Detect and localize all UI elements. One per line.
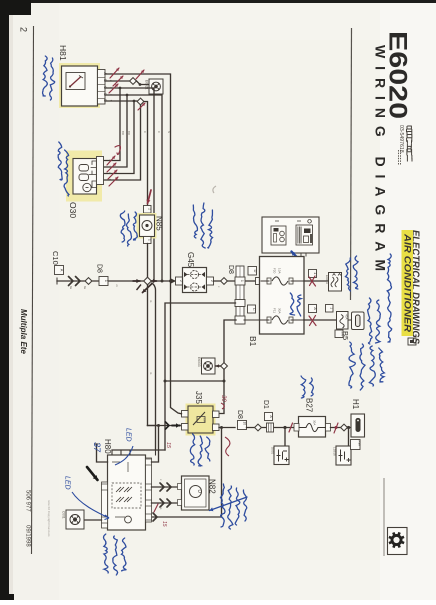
wire H81-C — [105, 88, 154, 281]
wire bus right of G45 — [214, 280, 257, 282]
rule under title — [351, 28, 352, 300]
short line right of gear box — [383, 478, 385, 556]
footer rule — [32, 26, 34, 554]
svg-text:F11: F11 — [273, 308, 277, 313]
H80 left pin strip — [102, 482, 108, 528]
svg-text:E6016: E6016 — [325, 275, 329, 284]
svg-text:15: 15 — [161, 521, 167, 527]
svg-text:G45: G45 — [186, 252, 195, 268]
svg-text:F20: F20 — [273, 268, 277, 274]
svg-text:LED: LED — [125, 428, 132, 442]
stubs to B1 — [301, 253, 306, 257]
svg-text:8a: 8a — [69, 286, 73, 290]
H81 pin strip — [98, 70, 106, 105]
blue ink: notes left of N85 — [120, 211, 125, 242]
junction to battery 1 — [283, 426, 286, 429]
svg-text:C: C — [143, 131, 147, 133]
svg-text:1: 1 — [330, 307, 334, 309]
svg-text:1: 1 — [240, 280, 244, 282]
blue ink: notes right of G45 — [193, 205, 197, 238]
wire branch to relay contact — [165, 380, 224, 382]
svg-text:A: A — [313, 307, 318, 310]
svg-text:30A: 30A — [203, 418, 207, 423]
fuse B5 40A — [337, 312, 349, 330]
svg-text:N82: N82 — [208, 479, 217, 494]
blue ink arrow to N82 — [210, 497, 248, 511]
hebrew company line 1 (drawn strokes) — [407, 126, 413, 162]
svg-text:RVA: RVA — [358, 441, 362, 447]
connector pin D label — [248, 267, 257, 276]
yellow highlight AIR CONDITIONER — [402, 230, 414, 336]
svg-text:D1: D1 — [262, 400, 269, 409]
svg-text:D8: D8 — [96, 264, 103, 273]
svg-text:Multipla Ete: Multipla Ete — [19, 309, 28, 354]
ground E6033 — [202, 358, 216, 374]
blue ink: note 30A near B1 — [290, 293, 295, 315]
gear icon box bottom-right — [388, 528, 408, 555]
connector chevrons on bus — [69, 277, 74, 286]
svg-text:O30: O30 — [68, 202, 78, 218]
H80 internals — [112, 483, 141, 508]
staircase wires into O30 — [104, 88, 121, 161]
svg-text:A: A — [60, 269, 65, 272]
component O30 highlight — [66, 151, 102, 202]
svg-text:L1B18: L1B18 — [333, 447, 337, 456]
scan edge: top-left corner block — [0, 0, 31, 15]
red tick on bus — [289, 423, 293, 432]
tiny top marks — [275, 220, 311, 224]
wires feeding H80 from verticals — [112, 449, 165, 451]
wire B1 row2 to B5 — [304, 319, 337, 321]
wire B1 row1 to E6016 — [304, 280, 329, 282]
red dot mark — [335, 426, 338, 429]
red cross mark row2 — [309, 316, 316, 326]
J35 pins — [182, 411, 189, 418]
hand-drawn black arrow — [87, 467, 98, 480]
svg-text:D001: D001 — [271, 447, 275, 455]
connector D8 band — [236, 266, 244, 324]
svg-text:H80: H80 — [103, 439, 112, 454]
wire B27 to H1 — [331, 427, 352, 429]
svg-text:N85: N85 — [155, 216, 164, 231]
svg-text:C001: C001 — [62, 511, 66, 519]
scan edge: top black line — [0, 0, 436, 3]
svg-text:J35: J35 — [194, 391, 203, 404]
red ink 9 squiggle — [115, 146, 120, 155]
red arrows at O30 pins — [107, 156, 115, 165]
ground E6021 — [149, 79, 163, 94]
component N85 highlight — [137, 213, 157, 239]
N85 pin bottom — [144, 237, 152, 244]
svg-text:2: 2 — [147, 208, 151, 210]
O30 pin strip — [97, 157, 104, 185]
wire lower bus — [247, 427, 295, 429]
svg-text:30A: 30A — [313, 420, 317, 425]
red ink arrows near H81 — [110, 68, 119, 78]
B1 fuse row 2 — [244, 319, 304, 321]
faint pencil mark — [213, 186, 216, 193]
blue ink: notes left of O30 — [58, 142, 62, 180]
control unit right detail — [296, 225, 313, 245]
inline connector diamond — [85, 278, 92, 285]
svg-text:AIR CONDITIONER: AIR CONDITIONER — [402, 233, 413, 332]
wire H81-A long run to junction — [105, 74, 171, 281]
H80 top-left wire exits — [97, 444, 108, 462]
svg-text:09/1998: 09/1998 — [25, 525, 31, 547]
svg-text:2: 2 — [19, 27, 29, 32]
wire vertical drops below junction — [147, 285, 149, 426]
wire J35 out right-bottom to D8 — [219, 427, 235, 429]
B1 fuse row 1 — [261, 280, 304, 282]
component N85 pin top — [144, 206, 152, 214]
svg-text:BR: BR — [127, 131, 131, 135]
B1 entry stub — [256, 278, 261, 285]
component N82 box — [182, 476, 210, 510]
ground C001 — [66, 510, 84, 529]
blue ink: long right margin line — [387, 254, 392, 342]
svg-text:506 977: 506 977 — [25, 490, 31, 512]
svg-text:15: 15 — [165, 442, 171, 449]
svg-text:C: C — [157, 131, 161, 133]
wire J35 switch feed — [148, 425, 175, 427]
component B27 box — [299, 417, 326, 438]
svg-text:E6033: E6033 — [197, 357, 201, 367]
svg-text:10: 10 — [243, 422, 247, 426]
blue pen arrow at control unit — [292, 252, 301, 261]
battery L1B18 — [348, 428, 350, 447]
svg-text:8a: 8a — [83, 286, 87, 290]
small mark under header — [408, 338, 416, 345]
wire H80 to vertical riser — [152, 426, 159, 463]
svg-text:1: 1 — [147, 239, 151, 241]
svg-text:D8: D8 — [236, 410, 243, 419]
svg-text:N: N — [167, 131, 171, 133]
svg-text:C10: C10 — [51, 251, 60, 265]
svg-text:B1: B1 — [248, 336, 258, 347]
component J35 highlight — [186, 404, 216, 436]
svg-text:C: C — [252, 308, 257, 311]
svg-text:U: U — [197, 490, 202, 493]
svg-text:B27: B27 — [305, 398, 314, 413]
wire H81-E to N85 — [105, 100, 137, 102]
wire into J35 coil left (from H81-A run) — [171, 281, 182, 414]
H80 right pin strip — [146, 458, 152, 522]
blue ink: notes above B5 — [346, 258, 351, 291]
connector pin C label — [248, 305, 256, 313]
svg-text:note 02 Copyright Fiat Auto: note 02 Copyright Fiat Auto — [47, 500, 51, 537]
component H80 box — [108, 455, 146, 530]
component H81 highlight — [59, 63, 100, 108]
blue ink: note under J35 — [190, 434, 194, 465]
wire B1 feeder long run — [165, 303, 236, 450]
red tick — [154, 504, 158, 512]
blue ink: note above lower bus — [301, 376, 306, 398]
H81 inner switch detail — [66, 73, 85, 90]
svg-text:LED: LED — [64, 476, 71, 490]
svg-text:2W: 2W — [341, 332, 345, 337]
control unit box — [262, 217, 319, 253]
heater element E6016 — [329, 273, 342, 292]
battery D001 — [274, 446, 289, 465]
wire H80 left-bottom to ground C001 — [84, 519, 102, 521]
component O30 box — [73, 159, 97, 195]
svg-text:40A: 40A — [345, 314, 349, 320]
svg-text:BR: BR — [121, 131, 125, 135]
red squiggle near drop — [225, 437, 230, 456]
red cross mark — [309, 276, 316, 286]
svg-text:H1: H1 — [351, 399, 360, 410]
blue ink: note right of N82 — [221, 484, 226, 527]
blue ink: big flowing note lower right — [349, 342, 355, 388]
component N85 box — [140, 215, 155, 237]
blue ink: notes right margin mid — [368, 298, 373, 344]
svg-text:D8: D8 — [227, 265, 234, 274]
component B1 box — [260, 257, 305, 335]
wire main bus — [56, 278, 58, 285]
wires H80 to N82 — [152, 486, 182, 488]
component J35 box — [188, 406, 213, 433]
blue ink: notes left of H81 — [43, 56, 48, 96]
wire B1 row2 left drop to J35 — [224, 320, 236, 363]
wire N85 to junction — [147, 244, 149, 282]
svg-text:03-5497618: 03-5497618 — [398, 125, 404, 153]
O30 resistors — [79, 165, 89, 172]
B5 blade holder — [352, 312, 365, 330]
wire H81-B to ground E6021 — [105, 80, 130, 82]
black arrow into pin — [172, 425, 180, 427]
wire drop from J35 out to compressor line — [152, 428, 222, 518]
component H81 box — [62, 66, 98, 106]
svg-text:37: 37 — [92, 442, 102, 453]
svg-text:H81: H81 — [58, 45, 68, 61]
control unit left detail — [271, 226, 286, 245]
svg-text:D: D — [253, 270, 258, 273]
svg-text:30A: 30A — [278, 308, 282, 314]
blue ink: note under H80 — [104, 534, 109, 573]
red arrow into N85 — [148, 190, 152, 204]
junction with diamond and flow arrows — [133, 280, 140, 282]
svg-text:10A: 10A — [278, 268, 282, 274]
svg-text:30: 30 — [220, 395, 226, 402]
scan edge: left black strip — [0, 0, 9, 600]
wire H81-D — [105, 95, 162, 281]
